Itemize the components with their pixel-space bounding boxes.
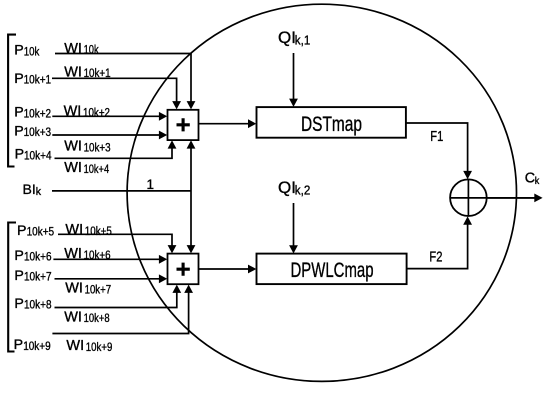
svg-text:k: k [36, 186, 42, 198]
svg-text:10k+4: 10k+4 [84, 164, 110, 176]
svg-text:QI: QI [278, 28, 296, 47]
svg-text:WI: WI [64, 41, 82, 57]
svg-text:k,1: k,1 [295, 32, 311, 47]
svg-text:10k+3: 10k+3 [24, 127, 51, 139]
svg-text:10k+1: 10k+1 [24, 75, 51, 87]
svg-text:10k+5: 10k+5 [85, 226, 112, 238]
svg-text:C: C [525, 170, 535, 186]
svg-text:WI: WI [64, 139, 82, 155]
svg-text:10k+9: 10k+9 [86, 342, 113, 354]
svg-text:P: P [14, 71, 23, 87]
svg-text:10k+5: 10k+5 [27, 227, 54, 239]
svg-text:k: k [535, 175, 540, 187]
svg-text:P: P [14, 43, 23, 59]
svg-text:BI: BI [23, 181, 36, 197]
svg-text:10k+2: 10k+2 [83, 107, 110, 119]
svg-text:10k+7: 10k+7 [24, 272, 52, 284]
svg-text:P: P [14, 337, 23, 353]
svg-text:QI: QI [278, 178, 296, 197]
svg-text:10k: 10k [84, 45, 99, 57]
svg-text:P: P [14, 268, 23, 284]
svg-text:WI: WI [65, 222, 83, 238]
svg-text:F1: F1 [430, 129, 443, 145]
svg-text:P: P [14, 123, 23, 139]
svg-text:WI: WI [64, 64, 82, 80]
svg-text:WI: WI [64, 246, 82, 262]
svg-text:WI: WI [64, 160, 82, 176]
svg-text:10k+2: 10k+2 [24, 108, 51, 120]
svg-text:WI: WI [64, 309, 82, 325]
svg-text:k,2: k,2 [295, 182, 311, 197]
svg-text:WI: WI [66, 338, 84, 354]
svg-text:10k+6: 10k+6 [84, 250, 111, 262]
svg-text:P: P [17, 223, 26, 239]
svg-text:10k+4: 10k+4 [24, 150, 52, 162]
svg-text:10k+6: 10k+6 [24, 252, 52, 264]
svg-text:P: P [14, 296, 23, 312]
svg-text:P: P [15, 147, 24, 163]
svg-text:10k+8: 10k+8 [84, 313, 110, 325]
svg-text:10k+1: 10k+1 [84, 68, 111, 80]
svg-text:WI: WI [65, 281, 83, 297]
svg-text:DSTmap: DSTmap [301, 112, 362, 136]
svg-text:F2: F2 [429, 250, 442, 266]
svg-text:10k+7: 10k+7 [85, 285, 112, 297]
svg-text:1: 1 [147, 177, 155, 192]
svg-text:10k+3: 10k+3 [84, 142, 111, 154]
svg-text:DPWLCmap: DPWLCmap [291, 258, 374, 282]
svg-text:10k+9: 10k+9 [23, 341, 51, 353]
svg-text:P: P [14, 105, 23, 121]
svg-text:10k: 10k [24, 46, 40, 58]
svg-text:WI: WI [64, 104, 82, 120]
svg-text:10k+8: 10k+8 [24, 300, 52, 312]
svg-text:P: P [14, 248, 23, 264]
